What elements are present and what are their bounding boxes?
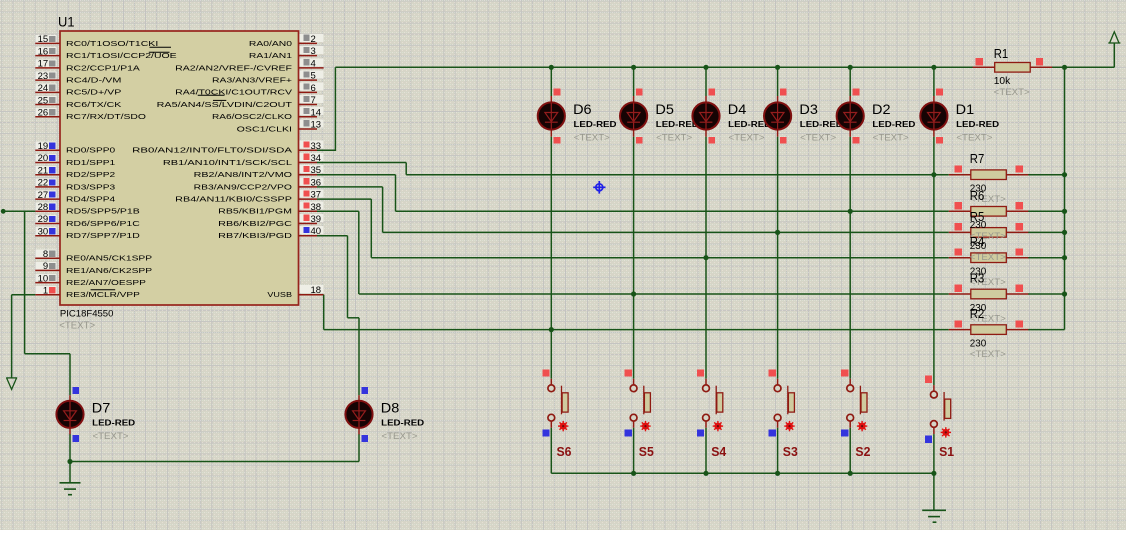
U1 overline T0CKI (pin 6) bbox=[198, 94, 225, 96]
U1 pin 2 RA0 bbox=[300, 34, 324, 42]
svg-text:10: 10 bbox=[38, 273, 49, 284]
wire RB5 pin38 net bbox=[317, 210, 359, 212]
svg-text:RD4/SPP4: RD4/SPP4 bbox=[66, 197, 115, 204]
svg-text:RA0/AN0: RA0/AN0 bbox=[249, 41, 292, 48]
svg-text:RD0/SPP0: RD0/SPP0 bbox=[66, 148, 115, 155]
svg-text:D7: D7 bbox=[92, 400, 111, 415]
wire RB4 pin37 net bbox=[317, 198, 371, 200]
svg-text:2: 2 bbox=[311, 34, 316, 45]
svg-text:26: 26 bbox=[38, 107, 49, 118]
node resistor rail junctions bbox=[1062, 172, 1067, 177]
svg-text:R7: R7 bbox=[970, 152, 985, 166]
svg-text:S3: S3 bbox=[783, 444, 798, 459]
svg-text:RA5/AN4/SS/LVDIN/C2OUT: RA5/AN4/SS/LVDIN/C2OUT bbox=[157, 102, 293, 109]
U1 pin 39 RB6 bbox=[300, 214, 324, 222]
U1 pin 24 RC5 bbox=[36, 84, 57, 92]
U1 overline UOE (pin 16) bbox=[149, 51, 170, 53]
svg-text:23: 23 bbox=[38, 71, 49, 82]
svg-text:<TEXT>: <TEXT> bbox=[656, 133, 692, 144]
node origin marker bbox=[593, 181, 605, 194]
svg-text:<TEXT>: <TEXT> bbox=[970, 252, 1006, 263]
svg-text:30: 30 bbox=[38, 226, 49, 237]
svg-text:RB3/AN9/CCP2/VPO: RB3/AN9/CCP2/VPO bbox=[194, 184, 293, 191]
svg-text:S6: S6 bbox=[557, 444, 572, 459]
svg-text:S1: S1 bbox=[939, 444, 954, 459]
svg-text:RB2/AN8/INT2/VMO: RB2/AN8/INT2/VMO bbox=[194, 172, 293, 179]
svg-text:OSC1/CLKI: OSC1/CLKI bbox=[237, 126, 292, 133]
svg-text:D6: D6 bbox=[573, 102, 592, 117]
U1 pin 5 RA3 bbox=[300, 70, 324, 78]
U1 pin 26 RC7 bbox=[36, 108, 57, 116]
switch S5 bbox=[625, 369, 654, 459]
resistor R2 labels bbox=[970, 307, 1006, 360]
svg-text:24: 24 bbox=[38, 83, 49, 94]
svg-text:LED-RED: LED-RED bbox=[956, 119, 999, 129]
svg-text:RE1/AN6/CK2SPP: RE1/AN6/CK2SPP bbox=[66, 268, 153, 275]
svg-text:RD7/SPP7/P1D: RD7/SPP7/P1D bbox=[66, 233, 140, 240]
svg-text:<TEXT>: <TEXT> bbox=[800, 133, 836, 144]
U1 pin 9 RE1 bbox=[36, 262, 57, 270]
svg-text:RE0/AN5/CK1SPP: RE0/AN5/CK1SPP bbox=[66, 256, 153, 263]
svg-text:RA3/AN3/VREF+: RA3/AN3/VREF+ bbox=[212, 77, 292, 84]
svg-text:16: 16 bbox=[38, 46, 49, 57]
svg-text:RA4/T0CKI/C1OUT/RCV: RA4/T0CKI/C1OUT/RCV bbox=[175, 90, 292, 97]
svg-text:RD5/SPP5/P1B: RD5/SPP5/P1B bbox=[66, 209, 140, 216]
wire LED/switch columns bbox=[933, 67, 935, 96]
wire RB3 pin36 net bbox=[317, 186, 383, 188]
U1 pin 17 RC2 bbox=[36, 59, 57, 67]
svg-text:<TEXT>: <TEXT> bbox=[574, 133, 610, 144]
svg-text:22: 22 bbox=[38, 178, 49, 189]
resistor R3 labels bbox=[970, 272, 1006, 325]
wire RB0 pin33 to top rail bbox=[317, 149, 335, 151]
svg-text:RA1/AN1: RA1/AN1 bbox=[249, 53, 292, 60]
svg-text:1: 1 bbox=[43, 285, 48, 296]
svg-text:RA6/OSC2/CLKO: RA6/OSC2/CLKO bbox=[212, 114, 293, 121]
LED D7 bbox=[56, 387, 135, 442]
LED D5 bbox=[620, 89, 699, 144]
resistor R6 bbox=[949, 202, 1029, 216]
svg-text:D5: D5 bbox=[655, 102, 674, 117]
wire D7 to ground bbox=[69, 462, 71, 483]
svg-text:RB0/AN12/INT0/FLT0/SDI/SDA: RB0/AN12/INT0/FLT0/SDI/SDA bbox=[132, 148, 292, 155]
U1 pin 4 RA2 bbox=[300, 58, 324, 66]
U1 overline after T1CKI (pin 15) bbox=[150, 46, 172, 48]
svg-text:RE3/MCLR/VPP: RE3/MCLR/VPP bbox=[66, 292, 140, 299]
svg-text:LED-RED: LED-RED bbox=[92, 418, 135, 428]
U1 overline SS (pin 7) bbox=[213, 99, 226, 101]
wire RD5 pin28 to D7 bbox=[1, 209, 6, 214]
svg-text:20: 20 bbox=[38, 153, 49, 164]
U1 pin 6 RA4 bbox=[300, 83, 324, 91]
svg-text:29: 29 bbox=[38, 214, 49, 225]
op-amp U1 PIC18F4550 chip body bbox=[60, 31, 299, 305]
svg-text:8: 8 bbox=[43, 249, 48, 260]
U1 pin 8 RE0 bbox=[36, 250, 57, 258]
node top rail junctions bbox=[931, 65, 936, 70]
resistor R4 labels bbox=[970, 235, 1006, 288]
svg-text:RB4/AN11/KBI0/CSSPP: RB4/AN11/KBI0/CSSPP bbox=[175, 197, 292, 204]
U1 pin 37 RB4 bbox=[300, 190, 324, 198]
svg-text:7: 7 bbox=[311, 95, 316, 106]
svg-text:R1: R1 bbox=[994, 47, 1009, 61]
U1 pin 1 RE3 bbox=[36, 286, 57, 294]
resistor R4 bbox=[949, 248, 1029, 262]
svg-text:RC4/D-/VM: RC4/D-/VM bbox=[66, 77, 122, 84]
U1 pin 18 VUSB bbox=[300, 285, 324, 293]
svg-text:5: 5 bbox=[311, 71, 316, 82]
svg-text:S4: S4 bbox=[711, 444, 727, 459]
resistor R5 labels bbox=[970, 210, 1006, 263]
svg-text:3: 3 bbox=[311, 46, 316, 57]
switch S4 bbox=[697, 369, 727, 459]
resistor R7 bbox=[949, 165, 1029, 179]
svg-text:28: 28 bbox=[38, 202, 49, 213]
svg-text:<TEXT>: <TEXT> bbox=[956, 133, 992, 144]
wire RB1 pin34 net bbox=[317, 162, 406, 164]
wire VUSB pin18 net bbox=[323, 295, 325, 330]
svg-text:9: 9 bbox=[43, 261, 48, 272]
LED D2 bbox=[837, 89, 916, 144]
svg-text:21: 21 bbox=[38, 165, 49, 176]
svg-text:RB1/AN10/INT1/SCK/SCL: RB1/AN10/INT1/SCK/SCL bbox=[163, 160, 292, 167]
switch S1 bbox=[925, 376, 954, 460]
resistor R6 labels bbox=[970, 189, 1006, 242]
wire MCLR pin1 to power down-arrow bbox=[12, 294, 36, 296]
svg-text:RC6/TX/CK: RC6/TX/CK bbox=[66, 102, 122, 109]
U1 pin 14 RA6 bbox=[300, 107, 324, 115]
svg-text:RD3/SPP3: RD3/SPP3 bbox=[66, 184, 115, 191]
wire RB2 pin35 net bbox=[317, 174, 396, 176]
switch S2 bbox=[841, 369, 870, 459]
svg-text:<TEXT>: <TEXT> bbox=[93, 431, 129, 442]
svg-text:230: 230 bbox=[970, 337, 987, 349]
svg-text:25: 25 bbox=[38, 95, 49, 106]
node D7 rail junction bbox=[67, 459, 72, 464]
svg-text:RD6/SPP6/P1C: RD6/SPP6/P1C bbox=[66, 221, 140, 228]
svg-text:LED-RED: LED-RED bbox=[574, 119, 617, 129]
svg-text:RC0/T1OSO/T1CKI: RC0/T1OSO/T1CKI bbox=[66, 41, 158, 48]
svg-text:<TEXT>: <TEXT> bbox=[970, 349, 1006, 360]
svg-text:R5: R5 bbox=[970, 210, 985, 224]
svg-text:PIC18F4550: PIC18F4550 bbox=[60, 308, 114, 319]
wire switch rail to ground bbox=[933, 473, 935, 510]
svg-text:RD2/SPP2: RD2/SPP2 bbox=[66, 172, 115, 179]
wire top rail (LED anode net) bbox=[335, 66, 1114, 68]
U1 pin 38 RB5 bbox=[300, 202, 324, 210]
svg-text:D8: D8 bbox=[381, 400, 400, 415]
svg-text:RB5/KBI1/PGM: RB5/KBI1/PGM bbox=[218, 209, 292, 216]
svg-text:4: 4 bbox=[311, 58, 316, 69]
U1 pin 25 RC6 bbox=[36, 96, 57, 104]
svg-text:<TEXT>: <TEXT> bbox=[382, 431, 418, 442]
power arrow VCC top right bbox=[1113, 43, 1115, 67]
svg-text:RC5/D+/VP: RC5/D+/VP bbox=[66, 90, 122, 97]
svg-text:D1: D1 bbox=[956, 102, 975, 117]
U1 pin 27 RD4 bbox=[36, 191, 57, 199]
U1 pin 13 OSC1 bbox=[300, 119, 324, 127]
LED D4 bbox=[692, 89, 771, 144]
wire D7-D8 cathode rail bbox=[69, 434, 71, 461]
svg-text:LED-RED: LED-RED bbox=[800, 119, 843, 129]
U1 pin 22 RD3 bbox=[36, 178, 57, 186]
LED D8 bbox=[345, 387, 424, 442]
resistor R2 bbox=[949, 320, 1029, 334]
svg-text:10k: 10k bbox=[994, 75, 1011, 87]
LED D3 bbox=[764, 89, 843, 144]
svg-text:39: 39 bbox=[311, 214, 322, 225]
U1 pin 10 RE2 bbox=[36, 274, 57, 282]
U1 pin 23 RC4 bbox=[36, 71, 57, 79]
U1 pin 30 RD7 bbox=[36, 227, 57, 235]
wire resistor right stubs to rail bbox=[1028, 174, 1065, 176]
U1 pin 7 RA5 bbox=[300, 95, 324, 103]
svg-text:R2: R2 bbox=[970, 307, 985, 321]
svg-text:LED-RED: LED-RED bbox=[872, 119, 915, 129]
svg-text:<TEXT>: <TEXT> bbox=[59, 321, 95, 332]
U1 pin 29 RD6 bbox=[36, 215, 57, 223]
ground symbol bottom left bbox=[60, 482, 81, 484]
resistor R3 bbox=[949, 285, 1029, 299]
resistor R1 labels bbox=[994, 47, 1030, 98]
svg-text:19: 19 bbox=[38, 141, 49, 152]
svg-text:S5: S5 bbox=[639, 444, 654, 459]
svg-text:U1: U1 bbox=[58, 14, 75, 30]
svg-text:<TEXT>: <TEXT> bbox=[994, 87, 1030, 98]
svg-text:18: 18 bbox=[311, 285, 322, 296]
switch S3 bbox=[769, 369, 798, 459]
U1 pin 36 RB3 bbox=[300, 177, 324, 185]
wire right resistor rail bbox=[1064, 67, 1066, 329]
svg-text:RC1/T1OSI/CCP2/UOE: RC1/T1OSI/CCP2/UOE bbox=[66, 53, 177, 60]
LED D6 bbox=[538, 89, 617, 144]
U1 pin 35 RB2 bbox=[300, 165, 324, 173]
svg-text:VUSB: VUSB bbox=[267, 292, 292, 299]
U1 pin 19 RD0 bbox=[36, 142, 57, 150]
svg-text:R3: R3 bbox=[970, 272, 985, 286]
U1 overline MCLR (pin 1) bbox=[91, 289, 116, 291]
svg-text:RD1/SPP1: RD1/SPP1 bbox=[66, 160, 115, 167]
node row junctions at switch columns bbox=[931, 172, 936, 177]
svg-text:27: 27 bbox=[38, 190, 49, 201]
svg-text:LED-RED: LED-RED bbox=[381, 418, 424, 428]
resistor R1 bbox=[973, 58, 1052, 72]
ground symbol bottom right bbox=[922, 509, 946, 511]
svg-text:R6: R6 bbox=[970, 189, 985, 203]
svg-text:6: 6 bbox=[311, 83, 316, 94]
svg-text:17: 17 bbox=[38, 59, 49, 70]
svg-text:D3: D3 bbox=[799, 102, 818, 117]
svg-text:13: 13 bbox=[311, 120, 322, 131]
svg-text:D4: D4 bbox=[728, 102, 747, 117]
svg-text:S2: S2 bbox=[855, 444, 870, 459]
U1 pin 16 RC1 bbox=[36, 47, 57, 55]
U1 pin 34 RB1 bbox=[300, 153, 324, 161]
U1 pin 20 RD1 bbox=[36, 154, 57, 162]
U1 pin 3 RA1 bbox=[300, 46, 324, 54]
U1 pin 21 RD2 bbox=[36, 166, 57, 174]
wire switch bottom rail bbox=[551, 472, 934, 474]
svg-text:RA2/AN2/VREF-/CVREF: RA2/AN2/VREF-/CVREF bbox=[175, 65, 292, 72]
U1 pin 40 RB7 bbox=[300, 226, 324, 234]
svg-text:D2: D2 bbox=[872, 102, 891, 117]
svg-text:15: 15 bbox=[38, 34, 49, 45]
svg-text:<TEXT>: <TEXT> bbox=[729, 133, 765, 144]
wire RB7 pin40 to D8 bbox=[317, 235, 348, 237]
svg-text:RB6/KBI2/PGC: RB6/KBI2/PGC bbox=[218, 221, 292, 228]
svg-text:RC7/RX/DT/SDO: RC7/RX/DT/SDO bbox=[66, 114, 147, 121]
U1 pin 33 RB0 bbox=[300, 141, 324, 149]
resistor R7 labels bbox=[970, 152, 1006, 205]
svg-text:RE2/AN7/OESPP: RE2/AN7/OESPP bbox=[66, 280, 146, 287]
LED D1 bbox=[920, 89, 999, 144]
node switch rail junctions bbox=[931, 471, 936, 476]
svg-text:R4: R4 bbox=[970, 235, 985, 249]
svg-text:RC2/CCP1/P1A: RC2/CCP1/P1A bbox=[66, 65, 140, 72]
U1 pin 15 RC0 bbox=[36, 35, 57, 43]
resistor R5 bbox=[949, 223, 1029, 237]
power arrow down (pin1 net) bbox=[6, 377, 17, 379]
U1 pin 28 RD5 bbox=[36, 203, 57, 211]
svg-text:<TEXT>: <TEXT> bbox=[873, 133, 909, 144]
svg-text:14: 14 bbox=[311, 107, 322, 118]
switch S6 bbox=[542, 369, 571, 459]
svg-text:RB7/KBI3/PGD: RB7/KBI3/PGD bbox=[218, 233, 292, 240]
